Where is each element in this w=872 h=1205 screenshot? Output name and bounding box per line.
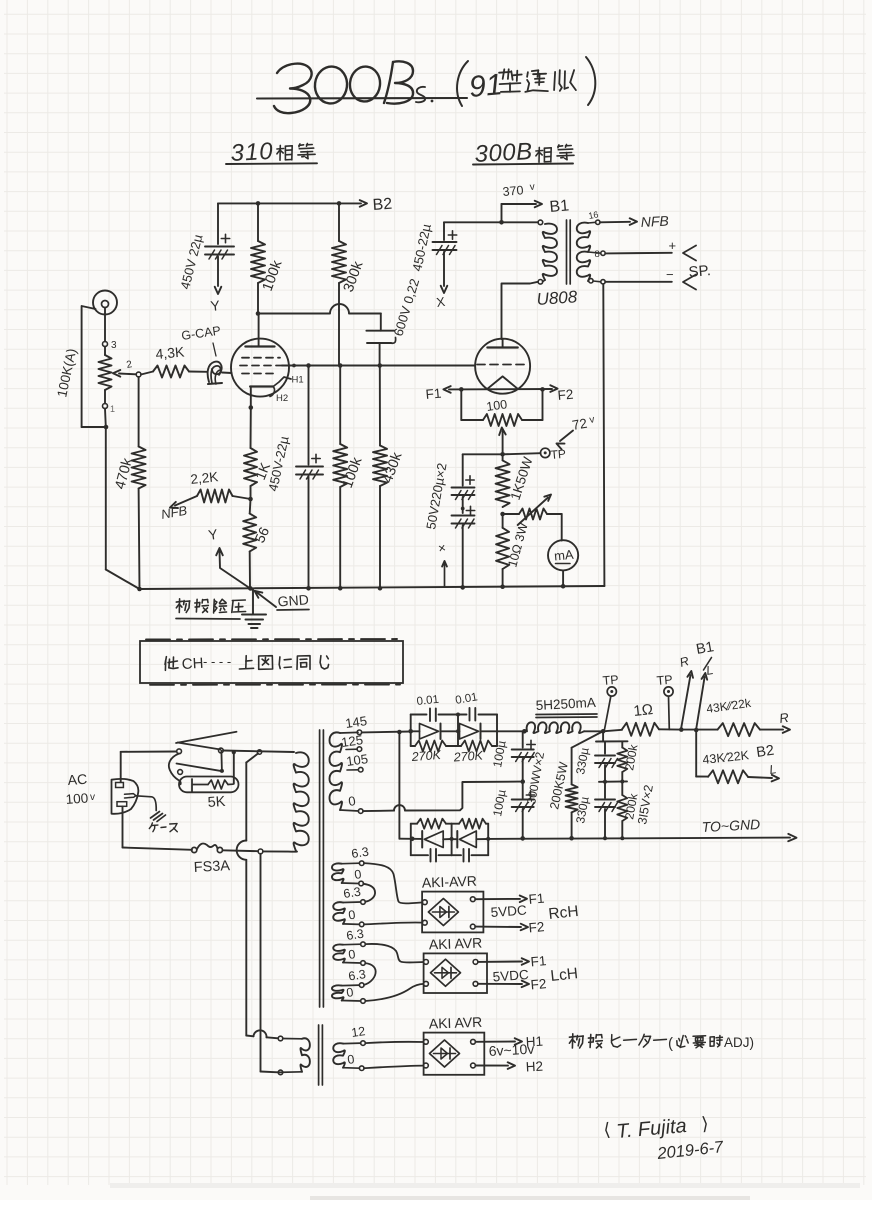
title paren (91-type approx) xyxy=(457,57,595,106)
resistor R10 1K50W xyxy=(496,454,510,507)
capacitor C9 100u xyxy=(512,740,536,761)
transformer T1 tap 0 xyxy=(589,279,606,284)
wire C4 bottom xyxy=(443,252,445,286)
wire R out xyxy=(760,729,783,731)
wire U3 in bottom xyxy=(364,1066,424,1069)
arrow B1 xyxy=(535,201,542,208)
resistor R5 1K cathode xyxy=(244,448,257,486)
svg-text:AKI-AVR: AKI-AVR xyxy=(422,873,478,891)
node dot B1 node xyxy=(601,729,606,734)
label 72V xyxy=(571,414,596,433)
label VR2 100 xyxy=(485,397,508,414)
wire node2 to 470K xyxy=(138,377,140,447)
label first stage heater note xyxy=(569,1034,754,1052)
label R19 200k xyxy=(622,791,640,820)
wire Y arrow from bus xyxy=(216,548,252,590)
label 300WVx2 xyxy=(524,751,547,806)
wire U1 out F2 xyxy=(475,924,528,931)
wire NFB out xyxy=(600,221,630,224)
label X node xyxy=(435,294,446,310)
label F2 xyxy=(557,387,574,403)
module U2 AKI AVR box xyxy=(424,935,487,993)
wire U3 out H2 xyxy=(475,1062,515,1069)
signature T.Fujita xyxy=(603,1113,710,1143)
wire 1K to node xyxy=(250,486,252,499)
diode D3 xyxy=(422,831,451,848)
wire choke out xyxy=(584,730,601,732)
label C1 450V22u xyxy=(177,232,205,290)
arrow 72V xyxy=(557,431,574,450)
arrow diag R xyxy=(681,671,693,728)
wire U1 in top xyxy=(364,863,423,903)
node dot 10ohm-bus xyxy=(500,584,505,589)
wire fuse to tap xyxy=(223,849,259,852)
tap 0a xyxy=(353,867,363,886)
svg-text:270K: 270K xyxy=(410,748,442,764)
resistor R1 100K plate load xyxy=(251,241,265,283)
speaker chevron plus xyxy=(683,246,696,261)
svg-text:2,2K: 2,2K xyxy=(190,469,219,487)
wire U3 out H1 xyxy=(475,1038,522,1045)
node dot cathode-bus xyxy=(248,586,253,591)
capacitor C6 50V220u lower xyxy=(452,506,475,528)
label B1 ps xyxy=(695,639,715,670)
label U3 H2 xyxy=(525,1059,543,1075)
svg-text:6.3: 6.3 xyxy=(342,885,361,901)
note box dash bottom xyxy=(150,684,400,686)
svg-text:NFB: NFB xyxy=(640,213,669,230)
wire left down xyxy=(105,427,107,570)
pot VR1 wiper arrow xyxy=(113,370,136,377)
rectifier upper left edge xyxy=(410,715,412,747)
rectifier right vertical xyxy=(496,715,498,747)
label B1 xyxy=(549,197,570,216)
label U1 5VDC xyxy=(490,902,527,919)
grid stopper bead xyxy=(208,362,222,384)
wire caps to bus xyxy=(462,526,464,588)
wire U2 in top xyxy=(365,944,423,963)
node 2 circle xyxy=(136,372,141,377)
svg-text:TO~GND: TO~GND xyxy=(701,816,760,835)
label R4 470k xyxy=(112,456,136,491)
wire L branch down xyxy=(696,730,708,777)
ground symbol xyxy=(242,589,266,628)
label 5K xyxy=(207,794,226,811)
wire 100Kb to bus xyxy=(339,487,341,588)
wire B2 rail xyxy=(218,202,361,204)
svg-text:125: 125 xyxy=(340,732,364,750)
capacitor C10 100u xyxy=(512,791,535,812)
svg-text:mA: mA xyxy=(553,547,574,564)
arrow B2 out xyxy=(772,775,779,782)
node dot screen-a xyxy=(292,364,296,368)
wire 100Kb top xyxy=(339,366,341,445)
arrow NFB in xyxy=(170,496,197,508)
note box text xyxy=(165,654,329,673)
wire cap100 top xyxy=(522,731,524,747)
arrow to Y xyxy=(215,287,222,294)
thermistor 5K element xyxy=(192,779,233,792)
svg-text:12: 12 xyxy=(350,1024,366,1040)
resistor R14 1ohm xyxy=(603,723,679,736)
wire series link1 xyxy=(363,884,375,902)
arrow F2 xyxy=(550,385,557,392)
resistor R6 2.2K NFB xyxy=(197,490,251,503)
label TP2 xyxy=(656,673,673,688)
node dot caps-bus xyxy=(460,585,465,590)
note box dash top xyxy=(146,638,400,641)
wire U2 in bottom xyxy=(365,984,423,1001)
wire SP minus xyxy=(605,281,672,283)
node dot upper rect in xyxy=(408,729,413,734)
label TP cathode xyxy=(550,447,567,462)
node dot grid-430K xyxy=(378,363,383,368)
resistor R18 200k xyxy=(617,748,627,773)
transformer T2 winding 6.3a xyxy=(332,863,359,883)
tube V1 heater hook H2 xyxy=(270,387,275,397)
node dot 145 branch xyxy=(397,730,402,735)
wire rect to choke xyxy=(497,730,524,732)
capacitor C5 50V220u upper xyxy=(452,476,475,500)
svg-text:100: 100 xyxy=(65,790,89,807)
label U1 F2 xyxy=(528,919,545,935)
capacitor C2 0.22 coupling xyxy=(366,331,395,344)
resistor R11 10ohm 3W xyxy=(496,514,509,569)
svg-text:B1: B1 xyxy=(695,639,715,658)
label C4 450-22u xyxy=(409,222,434,273)
label R7 56 xyxy=(251,524,272,545)
svg-text:AKI AVR: AKI AVR xyxy=(429,1014,483,1032)
transformer T2 primary winding xyxy=(294,752,309,851)
tube V2 300B envelope xyxy=(475,339,530,394)
wire 470K to bus xyxy=(138,489,141,590)
svg-text:4,3K: 4,3K xyxy=(155,343,186,362)
node dot stack midR xyxy=(620,780,624,784)
tap circle heater-line2 xyxy=(258,849,263,854)
label first-stage bias kanji xyxy=(176,599,246,619)
tube V1 cathode xyxy=(250,385,273,387)
node dot 5K-wire xyxy=(232,750,236,754)
capacitor C7 0.01 xyxy=(430,709,436,722)
node dot stackL-bus xyxy=(603,836,607,840)
rectifier lower mid vertical xyxy=(450,824,454,856)
label 310 equivalent xyxy=(230,138,315,167)
note box xyxy=(140,641,403,683)
transformer T1 tap 16 xyxy=(588,209,600,224)
wire 300K top xyxy=(338,203,340,241)
node dot meter-bus xyxy=(561,584,566,589)
svg-text:6v~10v: 6v~10v xyxy=(488,1041,534,1059)
tube V2 filament xyxy=(487,376,517,388)
svg-text:+: + xyxy=(669,238,677,253)
svg-text:310: 310 xyxy=(230,138,274,167)
label R6 2.2K xyxy=(190,469,219,487)
svg-text:GND: GND xyxy=(277,591,309,609)
capacitor C11 330u xyxy=(595,756,618,768)
wire bypass top xyxy=(308,366,310,465)
label R17 200K5W xyxy=(547,761,571,811)
module U2 bridge xyxy=(431,959,461,986)
label RcH xyxy=(548,903,580,923)
label R14 1ohm xyxy=(633,701,654,720)
diode D1 xyxy=(411,724,458,740)
label H1 xyxy=(292,375,304,386)
transformer T2 core xyxy=(320,730,324,1007)
node dot bypass-bus xyxy=(306,586,311,591)
svg-text:B2: B2 xyxy=(372,196,393,214)
svg-text:5VDC: 5VDC xyxy=(490,902,527,919)
label F1 xyxy=(425,386,442,402)
testpoint TP1 xyxy=(605,687,617,730)
tap circle heater-line1 xyxy=(257,750,261,754)
label H2 xyxy=(276,393,288,404)
node dot 100Kb-bus xyxy=(338,586,343,591)
arrow to X xyxy=(441,286,448,293)
transformer T1 primary terminal top xyxy=(538,220,543,225)
wire stack bottom xyxy=(605,783,622,838)
tube V1 grid g2 dashes xyxy=(240,365,282,367)
resistor R9 430K grid leak xyxy=(373,446,387,487)
wire 100K bottom xyxy=(257,283,259,314)
wire hum pot right xyxy=(522,389,543,420)
svg-text:5VDC: 5VDC xyxy=(492,967,529,984)
node dot jack-gnd join xyxy=(104,425,109,430)
svg-text:FS3A: FS3A xyxy=(193,858,230,876)
switch S1 pole1 xyxy=(177,743,224,754)
resistor R7 56 cathode xyxy=(243,514,256,552)
label case kanji xyxy=(149,823,177,832)
label AC 100V xyxy=(65,771,95,807)
label SP plus xyxy=(669,238,677,253)
arrow to chassis xyxy=(788,834,796,841)
tube V1 grid g3 dashes xyxy=(242,373,278,375)
wire C1 bottom xyxy=(217,257,219,287)
label C11 330u xyxy=(573,746,591,775)
svg-text:AC: AC xyxy=(67,771,88,788)
transformer T2 tap 125 xyxy=(340,732,364,751)
wire heater feeder2 xyxy=(261,854,279,1073)
wire coupling cap to grid line xyxy=(379,343,381,366)
wire plug bottom xyxy=(123,807,193,850)
arrow GND to bus xyxy=(255,591,277,607)
svg-text:8: 8 xyxy=(595,249,600,260)
svg-text:F2: F2 xyxy=(557,387,574,403)
label FS3A xyxy=(193,858,230,876)
label U1 F1 xyxy=(528,891,545,907)
arrow NFB xyxy=(630,218,637,225)
transformer T1 primary terminal bottom xyxy=(538,280,545,285)
svg-text:1Ω: 1Ω xyxy=(633,701,654,720)
wire meter to bus xyxy=(562,570,564,586)
label C10 100u xyxy=(490,788,508,817)
svg-text:TP: TP xyxy=(656,673,673,688)
wire B1 arrow line xyxy=(502,203,537,205)
label NFB xyxy=(160,503,189,522)
wire wiper left branch xyxy=(463,454,503,485)
label diag L xyxy=(705,663,714,678)
svg-text:H2: H2 xyxy=(525,1059,543,1075)
node dot R branch xyxy=(679,727,684,732)
transformer T2 winding 6.3d xyxy=(332,985,361,1001)
wire plate rail with hop xyxy=(258,304,381,314)
resistor R15 43K//22K xyxy=(681,723,760,736)
wire switch to primary xyxy=(223,751,294,753)
arrow R out xyxy=(783,726,790,733)
wire filament line xyxy=(449,388,552,390)
label C3 450V-22u xyxy=(265,434,291,492)
wire 56 to bus xyxy=(249,551,251,588)
label R2 300k xyxy=(341,259,367,295)
label R11 10ohm3W xyxy=(505,521,530,569)
wire left diagonal to bus xyxy=(106,570,140,590)
wire 430K to bus xyxy=(379,486,381,588)
capacitor C14 bias xyxy=(452,849,489,862)
wire 145 to rectifier xyxy=(362,731,411,734)
transformer T1 tap 8 xyxy=(588,249,605,260)
transformer T2 tap 145 xyxy=(344,713,368,735)
label C5C6 50V220ux2 xyxy=(423,462,449,531)
transformer T2 tap 0hv xyxy=(347,793,363,813)
node dot between caps xyxy=(461,507,465,511)
capacitor C1 450V22u xyxy=(205,234,234,259)
fuse F1 FS3A xyxy=(192,844,223,853)
svg-text:v: v xyxy=(90,792,95,803)
label R13 270K xyxy=(452,748,484,764)
wire SP plus xyxy=(605,252,672,255)
label Y node xyxy=(210,297,222,314)
node dot cathode-NFB xyxy=(248,497,253,502)
svg-text:0.01: 0.01 xyxy=(416,694,440,708)
wire bypass bottom xyxy=(308,477,310,589)
transformer T1 primary winding xyxy=(543,224,557,280)
label 300B equivalent xyxy=(474,138,574,168)
tap 6.3d xyxy=(347,967,366,987)
label R8 100k xyxy=(340,455,366,491)
wire node to 56 xyxy=(249,499,252,514)
resistor R8 100K divider xyxy=(333,444,347,487)
svg-text:105: 105 xyxy=(345,751,369,769)
module U3 AKI AVR box xyxy=(424,1014,485,1075)
svg-text:6.3: 6.3 xyxy=(350,845,369,861)
svg-text:91: 91 xyxy=(468,68,504,104)
switch S1 pole2 xyxy=(177,764,223,775)
testpoint TP cathode xyxy=(541,448,550,457)
wire cathode stem xyxy=(250,387,252,408)
label NFB out xyxy=(640,213,669,230)
svg-text:B1: B1 xyxy=(549,197,570,216)
svg-text:- - - -: - - - - xyxy=(203,654,231,669)
label R18 200k xyxy=(622,742,640,771)
wire 5K up xyxy=(233,752,235,784)
wire feeder1 to T3 xyxy=(246,1030,278,1038)
label R12 270K xyxy=(410,748,442,764)
svg-text:5H250mA: 5H250mA xyxy=(535,695,596,713)
wire ground bus xyxy=(140,586,605,589)
svg-text:v: v xyxy=(529,182,535,193)
svg-text:270K: 270K xyxy=(452,748,484,764)
arrow F1 xyxy=(443,386,450,393)
wire earth xyxy=(136,796,156,811)
meter M1 mA xyxy=(548,540,578,570)
pot VR1 terminal1 xyxy=(103,404,116,415)
label U3 H1 xyxy=(525,1034,543,1050)
wire 100K top xyxy=(257,203,259,241)
tube V1 plate xyxy=(245,314,274,347)
svg-text:5K: 5K xyxy=(207,794,226,811)
resistor R17 200K5W xyxy=(566,732,602,838)
label SP minus xyxy=(666,267,674,282)
svg-text:F1: F1 xyxy=(425,386,442,402)
tube V1 grid g1 dashes xyxy=(242,357,280,359)
wire pot1 down xyxy=(104,409,107,428)
transformer T1 core xyxy=(567,220,571,284)
tap 6.3b xyxy=(342,885,365,905)
rectifier upper top edge xyxy=(411,714,497,716)
arrow x to bus xyxy=(442,561,447,587)
arrow B2 xyxy=(360,200,367,207)
svg-text:CH: CH xyxy=(181,655,204,673)
node dot 430K-bus xyxy=(378,586,383,591)
label C7 0.01 xyxy=(416,694,440,708)
choke L1 5H250mA xyxy=(527,722,584,733)
tube V1 heater hook H1 xyxy=(273,377,291,387)
wire plug to switch xyxy=(121,752,177,783)
wire U1 in bottom xyxy=(364,922,422,924)
label 3I5Vx2 xyxy=(635,784,656,826)
node dot lower in xyxy=(410,837,415,842)
capacitor C12 330u xyxy=(595,800,618,812)
transformer T2 winding 6.3b xyxy=(333,902,360,924)
label R15 43K//22K xyxy=(705,696,752,716)
node dot plate rail xyxy=(256,311,261,316)
tap 0d xyxy=(345,985,365,1003)
rectifier lower left edge xyxy=(410,824,412,856)
tap 12 xyxy=(350,1024,366,1045)
svg-text:F2: F2 xyxy=(530,976,547,992)
wire jack ground xyxy=(82,306,96,427)
node dot wiper xyxy=(500,452,505,457)
speaker chevron minus xyxy=(683,275,696,290)
diode D2 xyxy=(458,724,497,740)
wire stack mid xyxy=(599,765,627,782)
tap 0c xyxy=(347,947,365,965)
title underline xyxy=(257,97,467,100)
tap 0t3 xyxy=(346,1052,364,1070)
svg-text:AKI AVR: AKI AVR xyxy=(429,935,483,953)
tube V2 plate xyxy=(487,339,517,348)
capacitor C4 450-22u B1 filter xyxy=(433,222,457,254)
svg-text:−: − xyxy=(666,267,674,282)
label 310 underline xyxy=(226,162,317,165)
transformer T2 HV winding xyxy=(330,732,359,811)
label U3 6V-10V xyxy=(488,1041,534,1059)
svg-text:3: 3 xyxy=(111,340,117,351)
wire 10ohm to bus xyxy=(502,569,504,587)
label R16 43K/22K xyxy=(702,748,750,767)
rectifier lower right edge xyxy=(486,824,490,856)
svg-text:1: 1 xyxy=(110,404,115,414)
label U2 F1 xyxy=(530,953,547,969)
AC plug body xyxy=(112,779,139,814)
label GND xyxy=(277,591,309,610)
wire gnd-left join xyxy=(82,426,106,428)
wire 0-tap down xyxy=(603,284,604,586)
svg-text:TP: TP xyxy=(602,673,619,688)
node dot B2-100K xyxy=(256,201,261,206)
svg-text:6.3: 6.3 xyxy=(347,967,366,983)
svg-text:LcH: LcH xyxy=(550,965,579,985)
module U3 bridge xyxy=(430,1040,460,1067)
